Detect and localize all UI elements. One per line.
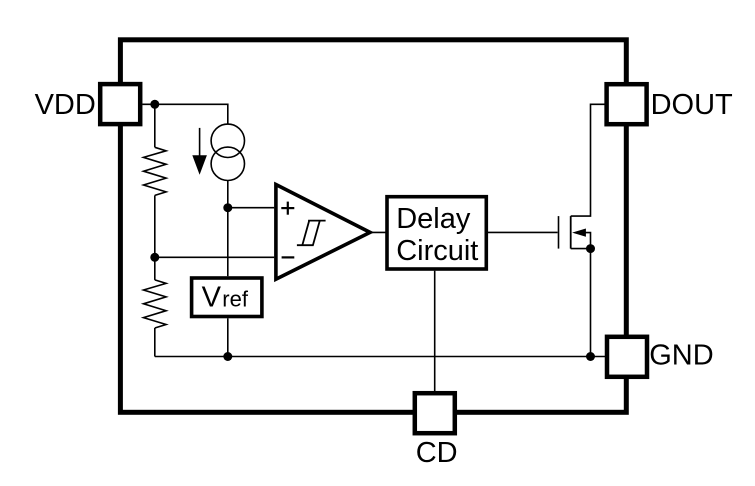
svg-text:Circuit: Circuit — [396, 235, 478, 267]
svg-text:V: V — [202, 282, 222, 314]
pad GND — [607, 337, 647, 377]
plus input mark — [281, 202, 294, 215]
wire plus node down to Vref top — [227, 208, 229, 277]
current source I1 — [211, 124, 244, 180]
wire minus node to comparator inverting input — [155, 256, 274, 258]
wire MOSFET source to ground rail — [590, 249, 592, 357]
junction dot VDD node — [150, 100, 159, 109]
wire VDD node down to resistor R1 — [154, 104, 156, 147]
wire Delay Circuit right to MOSFET gate — [488, 231, 558, 233]
junction dot Vref-ground — [223, 352, 232, 361]
pad CD — [415, 393, 455, 433]
junction dot plus node — [223, 203, 232, 212]
block Delay Circuit — [387, 197, 486, 269]
drain lead — [571, 104, 605, 216]
block Vref — [192, 278, 262, 317]
resistor R1 — [144, 147, 167, 195]
wire Delay Circuit bottom to CD pad — [434, 271, 436, 394]
channel bar — [570, 216, 572, 249]
wire VDD node to current source top — [142, 104, 228, 124]
pad DOUT — [607, 84, 647, 124]
svg-text:GND: GND — [649, 339, 713, 371]
hysteresis symbol — [297, 221, 326, 246]
wire plus node to comparator non-inverting input — [228, 207, 274, 209]
body lead with arrow — [585, 233, 591, 249]
svg-text:CD: CD — [416, 437, 458, 469]
wire Vref bottom to ground rail — [227, 318, 229, 356]
junction dot source-body — [586, 244, 595, 253]
wire R1 bottom to minus node — [154, 195, 156, 257]
minus input mark — [282, 256, 295, 258]
svg-text:Delay: Delay — [396, 203, 471, 235]
pad VDD — [100, 84, 140, 124]
wire comparator output to Delay Circuit — [368, 231, 386, 233]
gate bar — [558, 216, 560, 249]
current direction arrow — [192, 128, 207, 175]
svg-text:DOUT: DOUT — [651, 89, 733, 121]
svg-text:ref: ref — [222, 287, 249, 312]
junction dot minus node — [150, 253, 159, 262]
comparator U1 (Schmitt trigger) — [276, 185, 370, 280]
ground rail wire — [155, 356, 607, 358]
outer package border — [120, 40, 626, 413]
transistor Q1 (N-channel MOSFET) — [559, 104, 605, 248]
resistor R2 — [144, 257, 167, 356]
svg-text:VDD: VDD — [35, 89, 96, 121]
wire current source bottom to plus node — [227, 181, 229, 208]
source lead — [571, 248, 591, 250]
junction dot source-ground — [586, 352, 595, 361]
